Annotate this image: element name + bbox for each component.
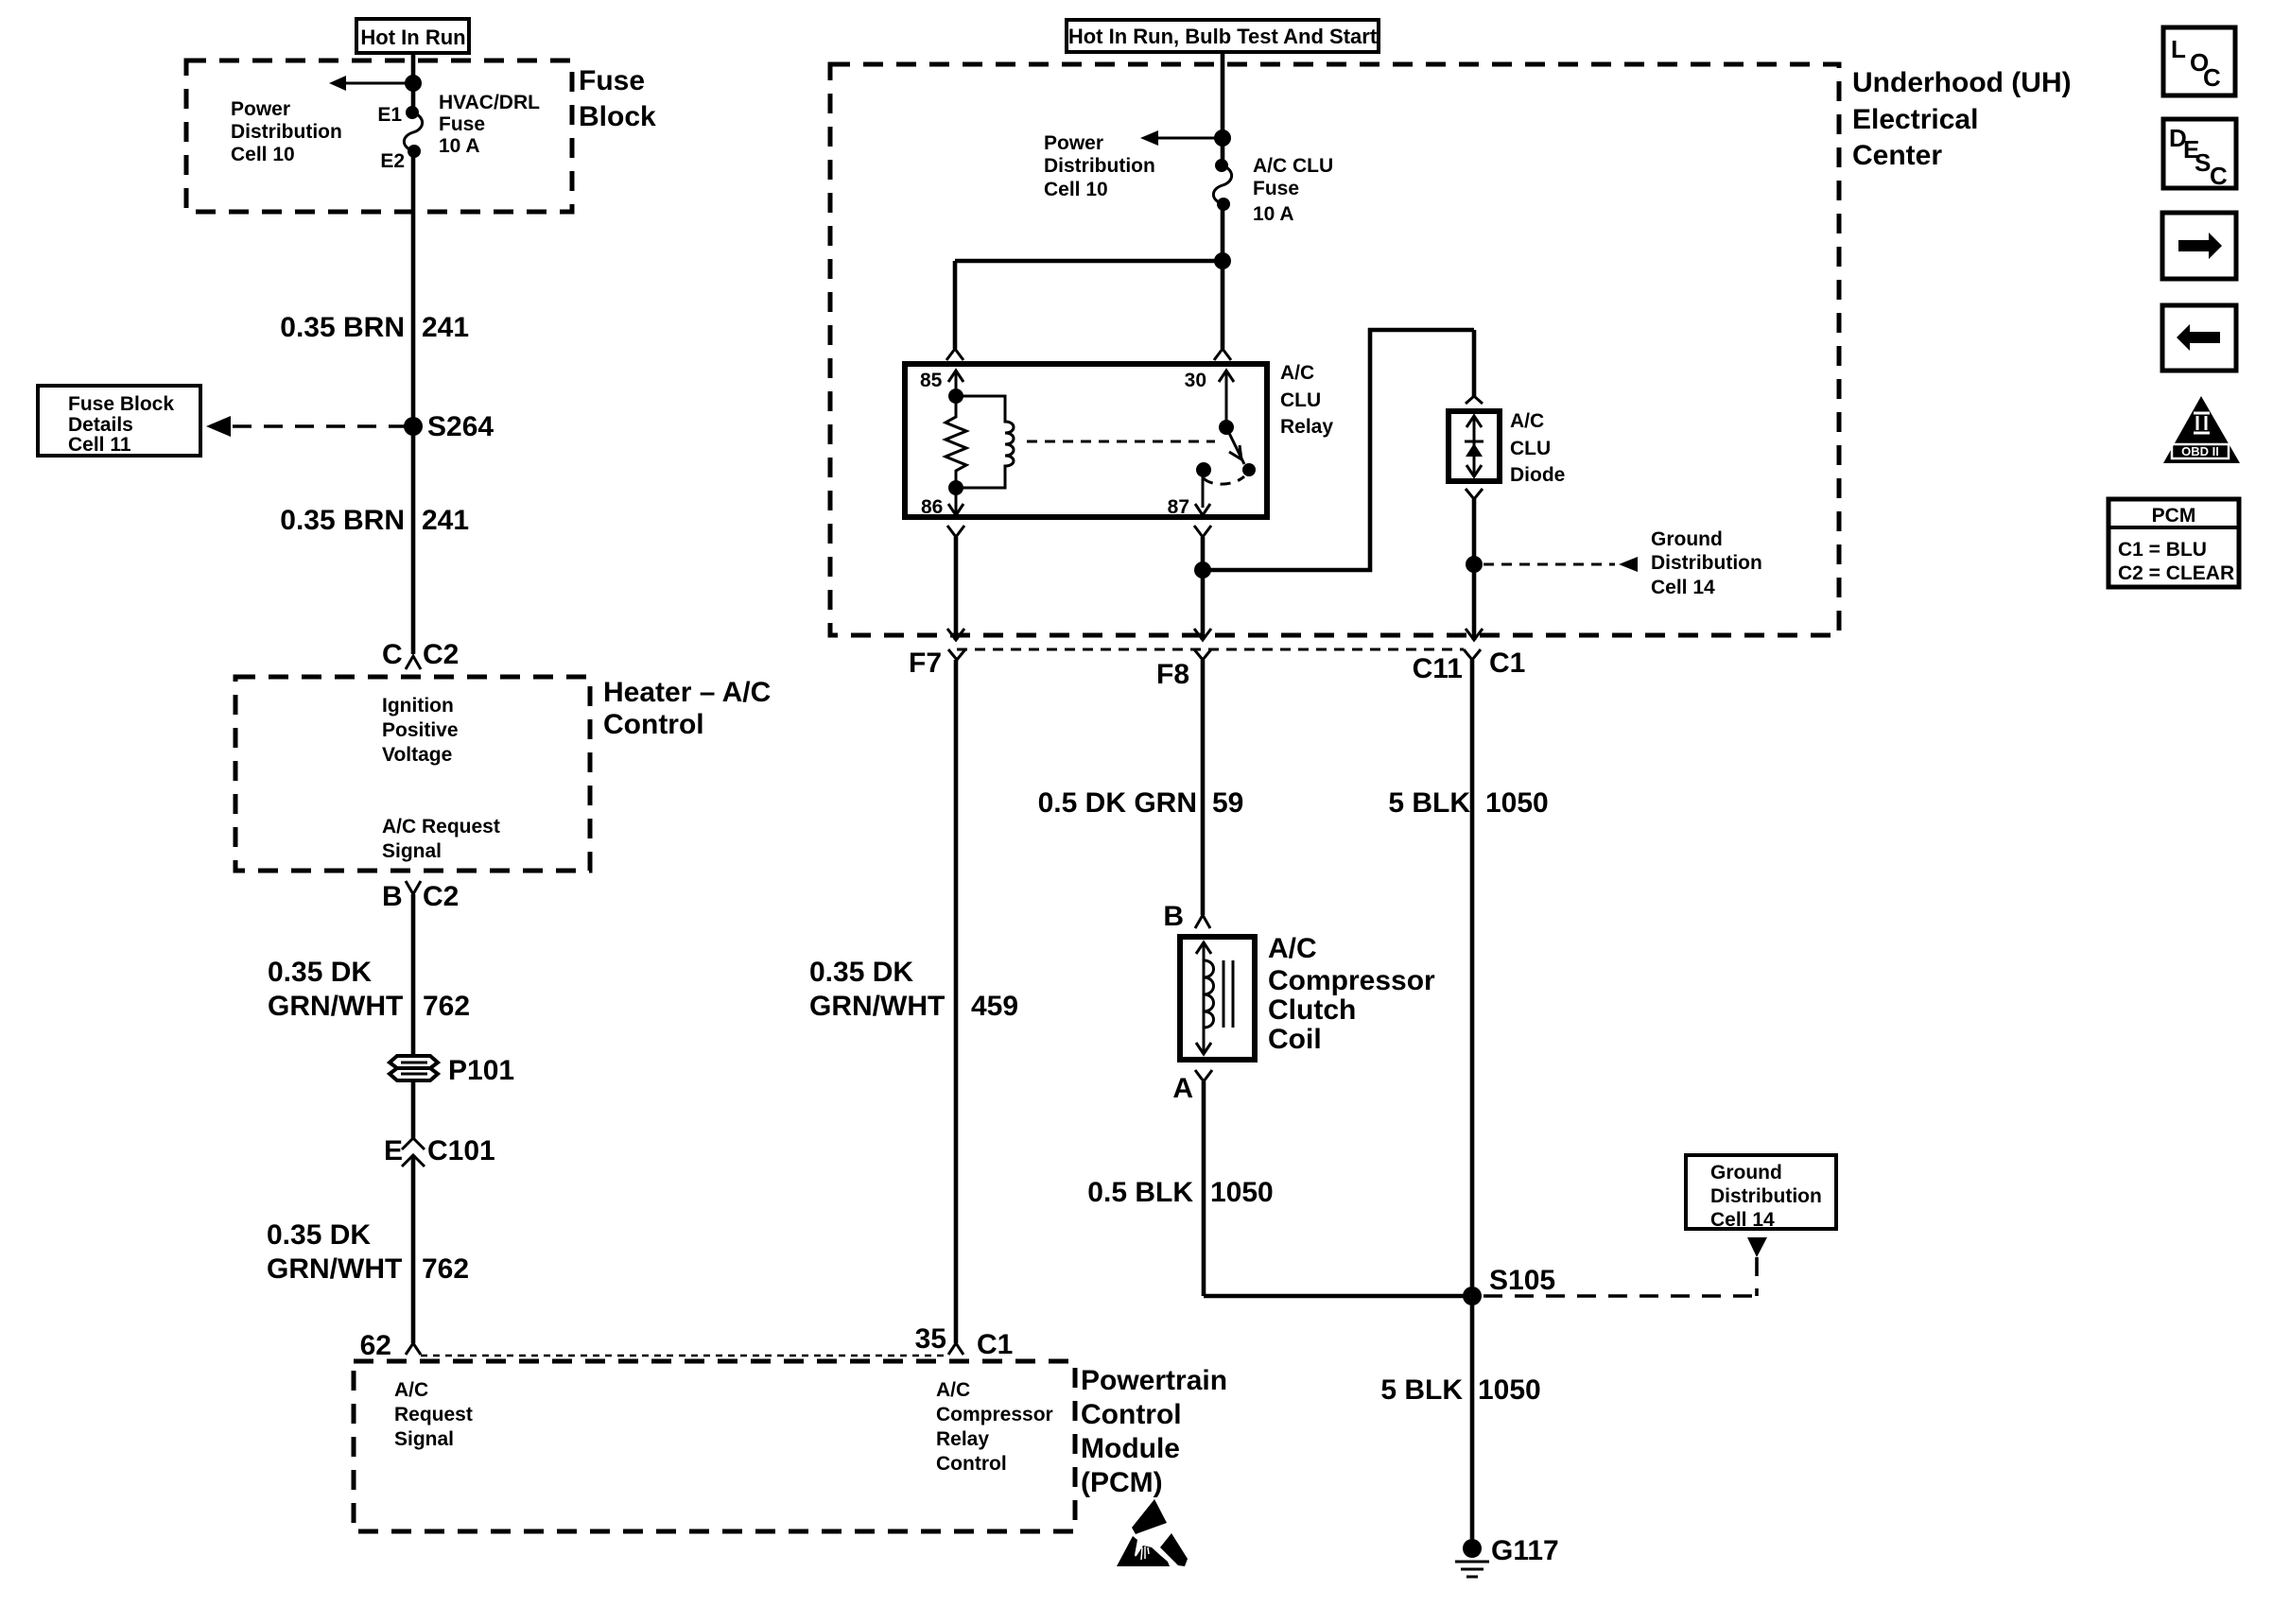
svg-text:GRN/WHT: GRN/WHT: [809, 991, 945, 1022]
svg-text:C2: C2: [423, 881, 459, 912]
svg-text:A/C: A/C: [936, 1379, 970, 1401]
svg-text:CLU: CLU: [1510, 438, 1551, 459]
svg-text:C1 = BLU: C1 = BLU: [2118, 539, 2207, 561]
svg-text:762: 762: [423, 991, 470, 1022]
svg-text:Fuse: Fuse: [1253, 178, 1299, 199]
svg-text:Control: Control: [1081, 1399, 1182, 1430]
svg-text:0.35 DK: 0.35 DK: [268, 957, 372, 988]
svg-text:Electrical: Electrical: [1852, 104, 1978, 135]
svg-text:30: 30: [1185, 370, 1206, 391]
svg-text:C2 = CLEAR: C2 = CLEAR: [2118, 562, 2234, 584]
svg-text:Details: Details: [68, 414, 133, 436]
svg-text:5 BLK: 5 BLK: [1380, 1374, 1463, 1406]
svg-text:Cell 14: Cell 14: [1710, 1209, 1775, 1231]
svg-text:0.35 BRN: 0.35 BRN: [280, 505, 405, 536]
svg-text:S105: S105: [1489, 1265, 1555, 1296]
svg-text:C: C: [2210, 162, 2228, 190]
svg-text:Compressor: Compressor: [1268, 965, 1435, 996]
svg-text:L: L: [2171, 35, 2186, 63]
svg-text:241: 241: [422, 505, 469, 536]
svg-text:Ignition: Ignition: [382, 695, 454, 717]
svg-text:Fuse: Fuse: [439, 113, 485, 135]
svg-text:Underhood (UH): Underhood (UH): [1852, 67, 2072, 98]
svg-text:C1: C1: [1489, 648, 1525, 679]
svg-text:Positive: Positive: [382, 719, 459, 741]
svg-text:Control: Control: [603, 709, 704, 740]
svg-text:Distribution: Distribution: [1710, 1185, 1822, 1207]
svg-text:CLU: CLU: [1280, 389, 1321, 411]
svg-text:Center: Center: [1852, 140, 1942, 171]
svg-text:Block: Block: [579, 101, 656, 132]
svg-text:E: E: [384, 1135, 403, 1166]
svg-text:Power: Power: [1044, 132, 1103, 154]
svg-text:241: 241: [422, 312, 469, 343]
svg-text:A/C: A/C: [1510, 410, 1544, 432]
svg-text:Fuse: Fuse: [579, 65, 645, 96]
svg-text:B: B: [382, 881, 403, 912]
svg-text:1050: 1050: [1485, 787, 1549, 819]
svg-text:Distribution: Distribution: [231, 121, 342, 143]
svg-text:35: 35: [915, 1323, 946, 1355]
svg-text:10 A: 10 A: [439, 135, 480, 157]
svg-text:Diode: Diode: [1510, 464, 1565, 486]
svg-text:C1: C1: [977, 1329, 1013, 1360]
svg-text:0.35 DK: 0.35 DK: [809, 957, 913, 988]
svg-text:G117: G117: [1491, 1535, 1559, 1566]
svg-text:B: B: [1163, 901, 1184, 932]
svg-text:F7: F7: [909, 648, 942, 679]
svg-text:Cell 10: Cell 10: [1044, 179, 1108, 200]
svg-text:Control: Control: [936, 1453, 1007, 1475]
svg-text:Ground: Ground: [1710, 1162, 1782, 1183]
svg-text:S264: S264: [427, 411, 494, 442]
svg-text:459: 459: [971, 991, 1018, 1022]
svg-text:62: 62: [360, 1330, 391, 1361]
svg-text:OBD II: OBD II: [2181, 444, 2219, 458]
svg-text:Cell 14: Cell 14: [1651, 577, 1715, 598]
svg-text:86: 86: [921, 496, 943, 518]
svg-text:Signal: Signal: [394, 1428, 454, 1450]
svg-text:5 BLK: 5 BLK: [1388, 787, 1470, 819]
svg-text:GRN/WHT: GRN/WHT: [268, 991, 403, 1022]
svg-text:Hot In Run: Hot In Run: [360, 26, 465, 49]
svg-text:0.35 DK: 0.35 DK: [267, 1219, 371, 1251]
svg-text:(PCM): (PCM): [1081, 1467, 1163, 1498]
svg-text:Relay: Relay: [1280, 416, 1333, 438]
svg-text:Fuse Block: Fuse Block: [68, 393, 174, 415]
svg-text:Relay: Relay: [936, 1428, 989, 1450]
svg-text:Voltage: Voltage: [382, 744, 452, 766]
svg-text:PCM: PCM: [2152, 505, 2196, 527]
svg-text:Cell 11: Cell 11: [68, 434, 131, 456]
svg-text:C: C: [2203, 63, 2221, 92]
svg-text:Request: Request: [394, 1404, 473, 1425]
svg-text:P101: P101: [448, 1055, 514, 1086]
svg-text:Distribution: Distribution: [1044, 155, 1155, 177]
svg-text:Power: Power: [231, 98, 290, 120]
svg-text:S: S: [2195, 148, 2211, 177]
svg-text:Clutch: Clutch: [1268, 994, 1356, 1026]
svg-text:0.5 BLK: 0.5 BLK: [1087, 1177, 1193, 1208]
svg-text:Heater – A/C: Heater – A/C: [603, 677, 771, 708]
svg-text:E1: E1: [377, 104, 402, 126]
svg-text:HVAC/DRL: HVAC/DRL: [439, 92, 540, 113]
svg-text:1050: 1050: [1478, 1374, 1541, 1406]
svg-text:F8: F8: [1156, 659, 1189, 690]
svg-text:Ground: Ground: [1651, 528, 1723, 550]
svg-text:A/C: A/C: [394, 1379, 428, 1401]
svg-text:Module: Module: [1081, 1433, 1180, 1464]
svg-text:Hot In Run, Bulb Test And Star: Hot In Run, Bulb Test And Start: [1068, 25, 1378, 48]
svg-text:A: A: [1172, 1073, 1193, 1104]
svg-text:Signal: Signal: [382, 840, 442, 862]
svg-text:A/C: A/C: [1280, 362, 1314, 384]
svg-text:85: 85: [920, 370, 943, 391]
svg-text:Compressor: Compressor: [936, 1404, 1053, 1425]
svg-text:Powertrain: Powertrain: [1081, 1365, 1227, 1396]
svg-text:C: C: [382, 639, 403, 670]
svg-text:0.35 BRN: 0.35 BRN: [280, 312, 405, 343]
svg-text:1050: 1050: [1210, 1177, 1274, 1208]
svg-text:Cell 10: Cell 10: [231, 144, 295, 165]
svg-text:762: 762: [422, 1253, 469, 1285]
svg-text:C2: C2: [423, 639, 459, 670]
svg-text:C11: C11: [1413, 653, 1463, 684]
svg-text:0.5 DK GRN: 0.5 DK GRN: [1038, 787, 1197, 819]
svg-text:10 A: 10 A: [1253, 203, 1294, 225]
svg-text:A/C: A/C: [1268, 933, 1317, 964]
svg-text:A/C CLU: A/C CLU: [1253, 155, 1333, 177]
svg-text:C101: C101: [427, 1135, 495, 1166]
svg-text:E2: E2: [380, 150, 405, 172]
svg-text:59: 59: [1212, 787, 1243, 819]
svg-text:Coil: Coil: [1268, 1024, 1322, 1055]
svg-text:A/C Request: A/C Request: [382, 816, 500, 838]
svg-text:87: 87: [1168, 496, 1189, 518]
svg-text:GRN/WHT: GRN/WHT: [267, 1253, 402, 1285]
svg-text:Distribution: Distribution: [1651, 552, 1762, 574]
